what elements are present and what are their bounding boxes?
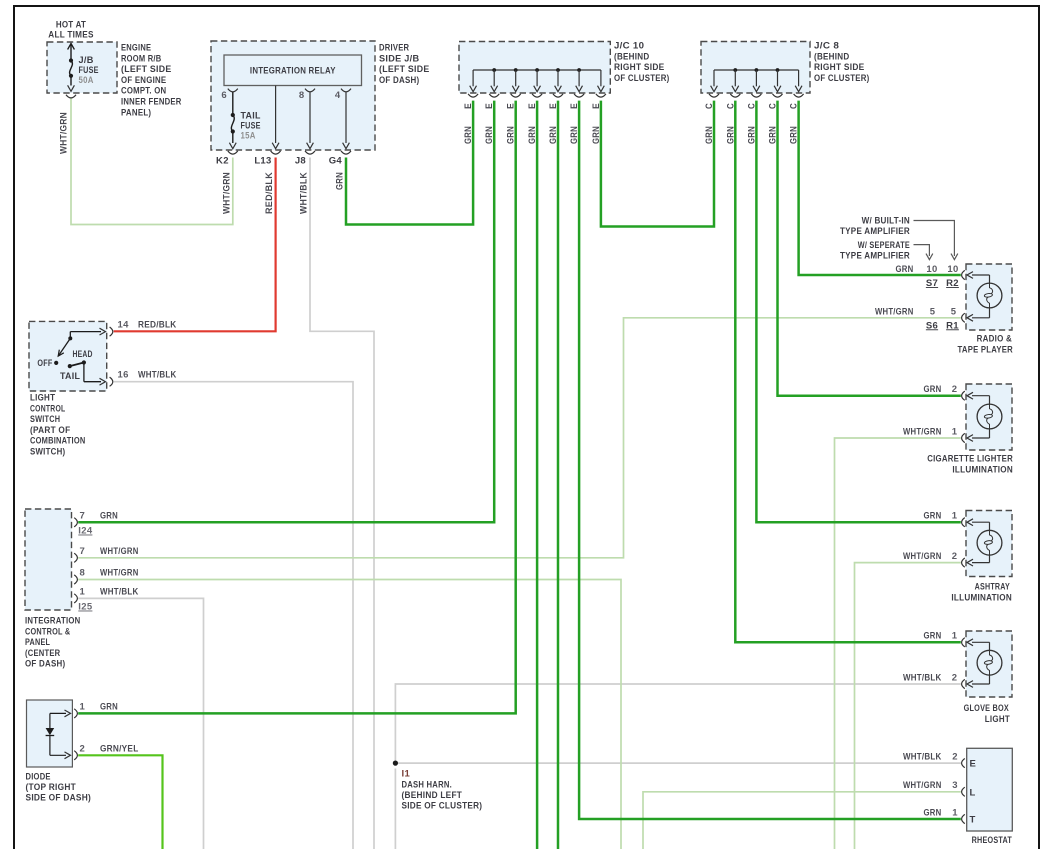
svg-text:1: 1	[80, 701, 86, 712]
diode D1 box	[27, 700, 73, 767]
svg-text:GRN: GRN	[463, 126, 474, 144]
cigarette lighter pin 1	[952, 426, 965, 442]
svg-text:ENGINE: ENGINE	[121, 43, 151, 54]
label DRIVER SIDE J/B	[379, 43, 430, 86]
label GLOVE BOX LIGHT	[964, 703, 1010, 725]
svg-text:TAPE PLAYER: TAPE PLAYER	[958, 344, 1014, 355]
svg-text:HEAD: HEAD	[73, 349, 93, 360]
svg-text:1: 1	[952, 426, 958, 437]
svg-text:L13: L13	[254, 156, 271, 167]
svg-text:GRN: GRN	[924, 511, 942, 522]
wire label GRN (glove box)	[924, 631, 942, 642]
svg-text:L: L	[970, 787, 976, 798]
svg-text:16: 16	[118, 370, 129, 381]
rheostat box	[967, 748, 1013, 831]
rheostat pin E	[952, 751, 976, 769]
wire WHT/GRN (integration control panel pin 7 to radio pin 5)	[78, 318, 961, 558]
power feed label HOT AT ALL TIMES	[48, 20, 93, 41]
svg-text:C: C	[789, 103, 800, 109]
svg-text:SIDE J/B: SIDE J/B	[379, 53, 419, 64]
wire label GRN (cigarette lighter)	[924, 384, 942, 395]
svg-text:GRN: GRN	[704, 126, 715, 144]
svg-text:WHT/BLK: WHT/BLK	[299, 172, 310, 214]
relay pin 8	[299, 89, 315, 101]
svg-text:LIGHT: LIGHT	[985, 714, 1010, 725]
label ASHTRAY ILLUMINATION	[951, 582, 1012, 604]
relay internal wire to G4	[343, 92, 350, 149]
svg-text:CONTROL &: CONTROL &	[25, 626, 70, 637]
label LIGHT CONTROL SWITCH	[30, 393, 86, 458]
radio lamp symbol	[967, 272, 1002, 322]
light control switch box (dashed)	[29, 321, 107, 391]
svg-text:GRN: GRN	[527, 126, 538, 144]
splice I1 junction dot	[393, 761, 398, 766]
svg-text:W/ BUILT-IN: W/ BUILT-IN	[862, 216, 910, 227]
svg-text:INTEGRATION: INTEGRATION	[25, 616, 81, 627]
svg-text:1: 1	[80, 586, 86, 597]
svg-text:GRN: GRN	[100, 701, 118, 712]
svg-text:2: 2	[952, 551, 958, 562]
svg-text:GLOVE BOX: GLOVE BOX	[964, 703, 1010, 714]
svg-text:(LEFT SIDE: (LEFT SIDE	[379, 64, 430, 75]
svg-text:GRN: GRN	[768, 126, 779, 144]
svg-text:I24: I24	[78, 526, 93, 537]
svg-text:RED/BLK: RED/BLK	[264, 172, 275, 214]
svg-text:K2: K2	[216, 156, 229, 167]
svg-text:5: 5	[951, 306, 957, 317]
fuse J/B FUSE 50A	[68, 44, 99, 92]
label ENGINE ROOM R/B	[121, 43, 182, 119]
wire GRN (J/C 10 pin E3 to diode pin 1)	[78, 101, 516, 714]
switch pin 14	[110, 320, 129, 337]
wire label WHT/BLK	[138, 370, 177, 381]
relay pin 6	[221, 89, 237, 101]
relay terminal J8	[295, 151, 315, 167]
engine room R/B box (dashed)	[47, 42, 117, 93]
wire GRN/YEL (diode pin 2 to page bottom)	[78, 755, 162, 849]
integration control & panel box (dashed)	[25, 509, 72, 610]
svg-text:INTEGRATION RELAY: INTEGRATION RELAY	[250, 66, 336, 77]
wire GRN (J/C 10 pin E7 to J/C 8 pin C1)	[601, 101, 714, 227]
svg-text:GRN/YEL: GRN/YEL	[100, 743, 139, 754]
svg-text:E: E	[463, 103, 474, 109]
svg-text:COMBINATION: COMBINATION	[30, 436, 86, 447]
svg-text:OF CLUSTER): OF CLUSTER)	[814, 73, 870, 84]
wire label GRN (vertical, G4)	[335, 172, 346, 190]
glove box pin 2	[952, 672, 965, 688]
J/C 8 internal bus	[714, 69, 799, 71]
diode pin 2	[74, 743, 85, 760]
wire WHT/GRN (page bottom to rheostat pin L)	[643, 792, 961, 849]
wire label WHT/GRN (radio pin 5)	[875, 306, 914, 317]
svg-text:E: E	[527, 103, 538, 109]
wire label WHT/GRN (cigarette lighter)	[903, 426, 942, 437]
svg-text:E: E	[548, 103, 559, 109]
svg-text:TYPE AMPLIFIER: TYPE AMPLIFIER	[840, 251, 910, 262]
svg-text:4: 4	[335, 90, 341, 101]
wire label WHT/GRN (panel pin 8)	[100, 568, 139, 579]
wire GRN (J/C 10 pin E5 to page bottom)	[557, 101, 560, 849]
J/C 10 pin E5	[548, 70, 563, 144]
svg-text:C: C	[725, 103, 736, 109]
svg-text:(PART OF: (PART OF	[30, 425, 70, 436]
relay pin 4	[335, 89, 351, 101]
switch S1 contacts	[37, 328, 105, 385]
relay terminal G4	[329, 151, 351, 167]
svg-text:WHT/BLK: WHT/BLK	[100, 586, 139, 597]
svg-text:T: T	[970, 815, 976, 826]
svg-text:RHEOSTAT: RHEOSTAT	[972, 835, 1012, 846]
svg-text:WHT/GRN: WHT/GRN	[903, 426, 942, 437]
wire label RED/BLK (vertical, L13)	[264, 172, 275, 214]
svg-text:7: 7	[80, 510, 86, 521]
label CIGARETTE LIGHTER ILLUMINATION	[927, 454, 1013, 476]
diode D1 symbol	[46, 710, 71, 759]
svg-text:GRN: GRN	[484, 126, 495, 144]
radio pin 5	[930, 306, 965, 322]
svg-text:(BEHIND: (BEHIND	[814, 51, 849, 62]
svg-text:3: 3	[952, 780, 958, 791]
svg-text:SWITCH): SWITCH)	[30, 447, 65, 458]
radio connector names S7 R2	[926, 278, 959, 289]
svg-text:ALL TIMES: ALL TIMES	[48, 29, 93, 40]
svg-text:J8: J8	[295, 156, 306, 167]
J/C 10 pin E7	[591, 70, 606, 144]
svg-text:10: 10	[926, 264, 937, 275]
wire label WHT/BLK (panel pin 1)	[100, 586, 139, 597]
rheostat pin T	[952, 807, 975, 825]
svg-text:LIGHT: LIGHT	[30, 393, 55, 404]
svg-text:GRN: GRN	[506, 126, 517, 144]
wire label WHT/GRN (vertical, K2)	[221, 172, 232, 214]
svg-text:GRN: GRN	[896, 264, 914, 275]
svg-text:WHT/BLK: WHT/BLK	[903, 751, 942, 762]
radio connector names S6 R1	[926, 320, 959, 331]
radio & tape player box (dashed)	[966, 264, 1012, 330]
J/C 10 pin E1	[463, 70, 478, 144]
svg-text:1: 1	[952, 511, 958, 522]
svg-text:J/C 8: J/C 8	[814, 41, 839, 52]
ashtray lamp symbol	[967, 519, 1002, 566]
panel pin 1 (I25)	[74, 586, 93, 612]
svg-text:8: 8	[299, 90, 305, 101]
svg-text:OF CLUSTER): OF CLUSTER)	[614, 73, 670, 84]
svg-text:TAIL: TAIL	[60, 371, 80, 382]
svg-text:R2: R2	[946, 278, 959, 289]
svg-text:SIDE OF DASH): SIDE OF DASH)	[26, 793, 92, 804]
wire WHT/GRN (ashtray illumination pin 2 to page bottom)	[855, 563, 961, 849]
svg-text:2: 2	[952, 384, 958, 395]
svg-text:(TOP RIGHT: (TOP RIGHT	[26, 782, 77, 793]
svg-text:GRN: GRN	[746, 126, 757, 144]
wire WHT/BLK (splice I1 to page bottom)	[394, 769, 396, 849]
svg-text:E: E	[484, 103, 495, 109]
svg-text:GRN: GRN	[924, 807, 942, 818]
glove box lamp symbol	[967, 639, 1002, 688]
label RADIO & TAPE PLAYER	[958, 334, 1014, 356]
svg-text:OF DASH): OF DASH)	[25, 659, 65, 670]
svg-text:5: 5	[930, 306, 936, 317]
svg-text:14: 14	[118, 320, 130, 331]
panel pin 8	[74, 568, 85, 585]
svg-text:C: C	[704, 103, 715, 109]
svg-text:10: 10	[947, 264, 958, 275]
wire label GRN (ashtray)	[924, 511, 942, 522]
svg-text:(BEHIND LEFT: (BEHIND LEFT	[402, 790, 463, 801]
svg-text:E: E	[506, 103, 517, 109]
J/C 8 bus junction dots	[733, 68, 779, 72]
svg-text:E: E	[970, 759, 977, 770]
svg-text:E: E	[569, 103, 580, 109]
label INTEGRATION CONTROL & PANEL	[25, 616, 81, 670]
wire GRN (J/C 10 pin E4 to page bottom)	[536, 101, 539, 849]
svg-text:15A: 15A	[241, 131, 256, 142]
wire label WHT/GRN (panel pin 7)	[100, 546, 139, 557]
svg-text:WHT/BLK: WHT/BLK	[138, 370, 177, 381]
panel pin 7	[74, 546, 85, 563]
cigarette lighter pin 2	[952, 384, 965, 400]
svg-text:GRN: GRN	[924, 631, 942, 642]
cigarette lighter lamp symbol	[967, 392, 1002, 441]
J/C 10 pin E4	[527, 70, 542, 144]
driver side J/B box (dashed)	[211, 41, 375, 150]
J/C 8 pin C2	[725, 70, 740, 144]
svg-text:S6: S6	[926, 320, 938, 331]
wire RED/BLK (relay pin L13 to light control switch pin 14)	[114, 158, 276, 332]
svg-text:2: 2	[80, 743, 86, 754]
svg-text:W/ SEPERATE: W/ SEPERATE	[858, 240, 910, 251]
svg-text:ILLUMINATION: ILLUMINATION	[951, 592, 1012, 603]
svg-text:DASH HARN.: DASH HARN.	[402, 779, 453, 790]
J/C 10 internal bus	[473, 69, 601, 71]
J/C 8 pin C1	[704, 70, 719, 144]
svg-text:S7: S7	[926, 278, 938, 289]
wire WHT/BLK (integration control panel pin 1 to page bottom)	[78, 598, 203, 849]
svg-text:GRN: GRN	[789, 126, 800, 144]
label J/C 8	[814, 41, 870, 84]
diode pin 1	[74, 701, 85, 718]
svg-text:I25: I25	[78, 602, 93, 613]
J/C 10 pin E3	[506, 70, 521, 144]
svg-text:GRN: GRN	[100, 510, 118, 521]
glove box pin 1	[952, 631, 965, 647]
wire GRN (J/C 8 pin C4 to cigarette lighter pin 2)	[778, 101, 961, 396]
panel pin 7 (I24)	[74, 510, 93, 536]
J/C 10 pin E6	[569, 70, 584, 144]
wire label GRN (panel pin 7)	[100, 510, 118, 521]
svg-text:J/C 10: J/C 10	[614, 41, 644, 52]
wire WHT/BLK (glove box light pin 2 to splice I1)	[395, 684, 960, 763]
svg-text:OF DASH): OF DASH)	[379, 75, 419, 86]
J/C 8 pin C4	[768, 70, 783, 144]
svg-text:COMPT. ON: COMPT. ON	[121, 86, 166, 97]
callout W/ BUILT-IN TYPE AMPLIFIER	[840, 216, 958, 260]
ashtray illumination box (dashed)	[966, 511, 1012, 577]
wire label WHT/GRN (ashtray)	[903, 551, 942, 562]
svg-text:WHT/GRN: WHT/GRN	[221, 172, 232, 214]
switch pin 16	[110, 370, 129, 387]
fuse TAIL FUSE 15A	[229, 92, 260, 149]
svg-text:SIDE OF CLUSTER): SIDE OF CLUSTER)	[402, 800, 483, 811]
svg-text:PANEL: PANEL	[25, 637, 50, 648]
J/C 10 pin E2	[484, 70, 499, 144]
wire label WHT/BLK (glove box)	[903, 672, 942, 683]
svg-text:1: 1	[952, 807, 958, 818]
svg-text:I1: I1	[402, 769, 411, 780]
relay U1 INTEGRATION RELAY	[224, 55, 362, 86]
svg-text:2: 2	[952, 751, 958, 762]
svg-text:ROOM R/B: ROOM R/B	[121, 53, 161, 64]
callout W/ SEPERATE TYPE AMPLIFIER	[840, 240, 933, 262]
wire GRN (J/C 8 pin C3 to ashtray illumination pin 1)	[756, 101, 960, 523]
svg-text:WHT/GRN: WHT/GRN	[903, 551, 942, 562]
wire GRN (relay pin G4 to J/C 10 pin E1)	[346, 101, 473, 225]
wire label GRN (diode pin 1)	[100, 701, 118, 712]
svg-text:RADIO &: RADIO &	[977, 334, 1012, 345]
relay internal wire to J8	[307, 92, 314, 149]
wire label WHT/BLK (rheostat E)	[903, 751, 942, 762]
svg-text:WHT/GRN: WHT/GRN	[100, 568, 139, 579]
svg-text:ILLUMINATION: ILLUMINATION	[952, 464, 1013, 475]
svg-text:(CENTER: (CENTER	[25, 648, 60, 659]
svg-text:8: 8	[80, 568, 86, 579]
svg-text:RED/BLK: RED/BLK	[138, 320, 177, 331]
J/C 8 pin C3	[746, 70, 761, 144]
wire GRN (J/C 10 pin E6 to rheostat pin T)	[579, 101, 961, 819]
wire label WHT/GRN (vertical, fuse wire)	[59, 112, 70, 154]
radio pin 10	[926, 264, 964, 280]
wire WHT/BLK (relay pin J8 down, over to page bottom)	[310, 158, 374, 849]
wire label WHT/BLK (vertical, J8)	[299, 172, 310, 214]
relay internal wire to L13	[272, 86, 279, 149]
svg-text:WHT/GRN: WHT/GRN	[903, 780, 942, 791]
svg-text:(LEFT SIDE: (LEFT SIDE	[121, 64, 172, 75]
wire label GRN/YEL (diode pin 2)	[100, 743, 139, 754]
svg-text:WHT/GRN: WHT/GRN	[59, 112, 70, 154]
svg-text:2: 2	[952, 672, 958, 683]
svg-text:TYPE AMPLIFIER: TYPE AMPLIFIER	[840, 226, 910, 237]
svg-text:GRN: GRN	[548, 126, 559, 144]
svg-text:50A: 50A	[79, 75, 94, 86]
wire label GRN (rheostat T)	[924, 807, 942, 818]
wire label GRN (radio pin 10)	[896, 264, 914, 275]
rheostat pin L	[952, 780, 975, 798]
svg-text:ASHTRAY: ASHTRAY	[975, 582, 1011, 593]
svg-text:CONTROL: CONTROL	[30, 403, 65, 414]
svg-text:RIGHT SIDE: RIGHT SIDE	[814, 62, 865, 73]
svg-text:OFF: OFF	[37, 358, 52, 369]
svg-text:6: 6	[221, 90, 227, 101]
svg-text:WHT/GRN: WHT/GRN	[875, 306, 914, 317]
svg-text:GRN: GRN	[924, 384, 942, 395]
cigarette lighter illumination box (dashed)	[966, 384, 1012, 450]
wire WHT/GRN (cigarette lighter pin 1 to page bottom)	[835, 438, 961, 849]
svg-text:SWITCH: SWITCH	[30, 414, 60, 425]
svg-text:DIODE: DIODE	[26, 772, 51, 783]
junction connector J/C 10 box (dashed)	[459, 42, 610, 94]
ashtray pin 1	[952, 511, 965, 527]
wire GRN (J/C 8 pin C5 to radio pin 10)	[799, 101, 961, 275]
svg-text:GRN: GRN	[335, 172, 346, 190]
svg-text:(BEHIND: (BEHIND	[614, 51, 649, 62]
svg-text:7: 7	[80, 546, 86, 557]
svg-text:1: 1	[952, 631, 958, 642]
svg-text:DRIVER: DRIVER	[379, 43, 409, 54]
svg-text:WHT/BLK: WHT/BLK	[903, 672, 942, 683]
label I1 DASH HARN	[402, 769, 483, 812]
svg-text:GRN: GRN	[725, 126, 736, 144]
wire WHT/GRN (integration control panel pin 8 to page bottom)	[78, 580, 621, 849]
label DIODE	[26, 772, 92, 804]
label J/C 10	[614, 41, 670, 84]
J/C 10 bus junction dots	[492, 68, 581, 72]
wire WHT/BLK (light control switch pin 16 to page bottom)	[114, 382, 353, 849]
relay terminal L13	[254, 151, 280, 167]
svg-text:GRN: GRN	[569, 126, 580, 144]
wire WHT/BLK (splice I1 to rheostat pin E)	[395, 762, 960, 764]
J/C 8 pin C5	[789, 70, 804, 144]
svg-text:G4: G4	[329, 156, 343, 167]
svg-text:OF ENGINE: OF ENGINE	[121, 75, 166, 86]
connector below J/B fuse box	[66, 95, 76, 98]
svg-text:WHT/GRN: WHT/GRN	[100, 546, 139, 557]
relay terminal K2	[216, 151, 238, 167]
svg-text:GRN: GRN	[591, 126, 602, 144]
svg-text:R1: R1	[946, 320, 959, 331]
svg-text:CIGARETTE LIGHTER: CIGARETTE LIGHTER	[927, 454, 1013, 465]
wire label WHT/GRN (rheostat L)	[903, 780, 942, 791]
label RHEOSTAT	[972, 835, 1012, 846]
svg-text:E: E	[591, 103, 602, 109]
svg-text:INNER FENDER: INNER FENDER	[121, 97, 182, 108]
svg-text:RIGHT SIDE: RIGHT SIDE	[614, 62, 665, 73]
ashtray pin 2	[952, 551, 965, 567]
svg-text:PANEL): PANEL)	[121, 107, 151, 118]
wire GRN (J/C 8 pin C2 to glove box light pin 1)	[735, 101, 961, 643]
wire label RED/BLK	[138, 320, 177, 331]
svg-text:C: C	[768, 103, 779, 109]
svg-text:C: C	[746, 103, 757, 109]
junction connector J/C 8 box (dashed)	[701, 42, 810, 94]
wire GRN (J/C 10 pin E2 to integration control panel pin 7)	[78, 101, 494, 523]
glove box light box (dashed)	[966, 631, 1012, 697]
wire WHT/GRN (J/B fuse to relay pin K2)	[71, 98, 233, 224]
